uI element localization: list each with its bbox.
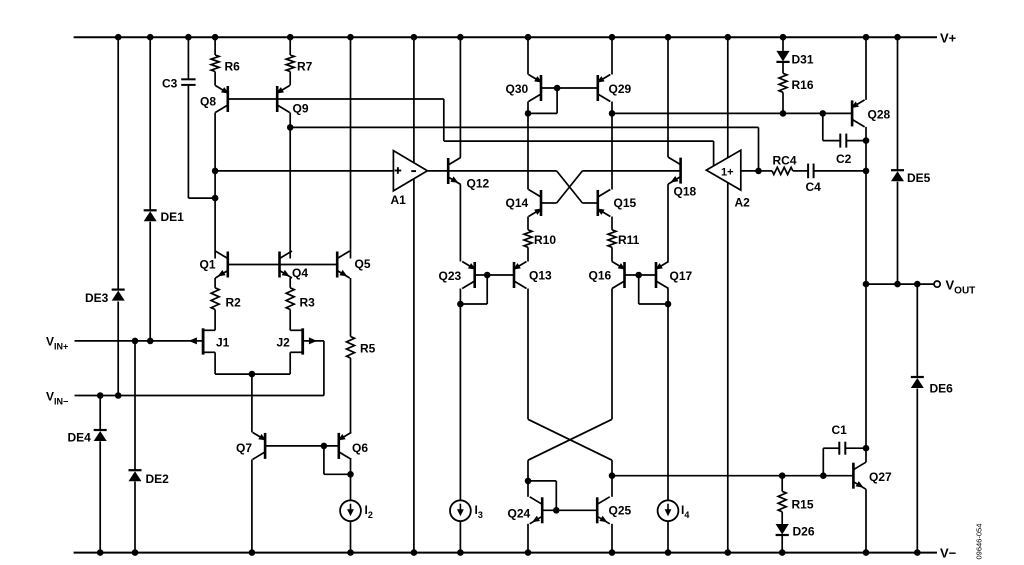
wire: Q15 emitter to R11 (611, 217, 613, 230)
wire: Q24 emitter to V- (527, 524, 529, 553)
svg-text:Q24: Q24 (508, 507, 531, 521)
wire: R7 to Q9 emitter (289, 72, 291, 86)
wire: Q16/Q17 base bus (625, 274, 657, 276)
wire: V+ to Q30 emitter (527, 37, 529, 74)
wire: Q9 collector down to Q4 collector (289, 113, 291, 259)
wire: D26 to V- (781, 536, 783, 553)
transistor Q14 (529, 190, 543, 217)
svg-text:Q29: Q29 (609, 82, 632, 96)
svg-text:Q23: Q23 (439, 269, 462, 283)
capacitor C4 (808, 164, 814, 179)
svg-text:Q14: Q14 (506, 196, 529, 210)
wire: Q16 collector down to crossover (611, 289, 613, 420)
junction: Q7 collector on V- (249, 549, 256, 556)
wire: J1 source to tail node (215, 352, 252, 374)
transistor Q24 (530, 497, 543, 524)
transistor Q15 (597, 190, 611, 217)
wire: Q29 collector to Q28 base (612, 112, 852, 114)
svg-text:D31: D31 (792, 53, 814, 67)
wire: Q13 collector down to crossover (527, 289, 529, 420)
transistor Q8 (215, 86, 229, 113)
junction: R15 tap (779, 472, 786, 479)
wire: Q24 base-collector tie (528, 481, 556, 510)
wire: A2 supply line V+ to V- (727, 37, 729, 552)
junction: DE6 at VOUT (914, 281, 921, 288)
junction: Q24 base tie (553, 507, 560, 514)
junction: A2 supply at V+ (725, 34, 732, 41)
diode DE3 (112, 290, 125, 301)
svg-text:Q7: Q7 (236, 441, 252, 455)
svg-text:Q18: Q18 (674, 185, 697, 199)
transistor Q23 (462, 262, 476, 289)
svg-text:Q30: Q30 (506, 82, 529, 96)
capacitor C3 (181, 79, 195, 85)
junction: I2 on V- (347, 549, 354, 556)
svg-text:R16: R16 (792, 78, 814, 92)
resistor R5 (347, 337, 355, 359)
junction: Q25 emitter on V- (609, 549, 616, 556)
wire: V+ down to Q18 collector (667, 37, 669, 157)
transistor Q9 (276, 86, 290, 113)
wire: Q23 base-collector tie (460, 275, 487, 304)
junction: VIN- / DE3 (115, 392, 122, 399)
junction: Q28 collector / C2 (863, 137, 870, 144)
svg-text:Q28: Q28 (868, 108, 891, 122)
wire: Q25 collector to Q27 base (612, 475, 853, 477)
resistor R10 (524, 230, 532, 248)
junction: Q23 collector tie node (457, 301, 464, 308)
junction: VIN+ / DE1 (147, 338, 154, 345)
wire: Q5 emitter to R5 (350, 278, 352, 337)
transistor Q7 (253, 432, 267, 459)
transistor Q18 (668, 157, 681, 184)
transistor Q5 (337, 251, 350, 278)
svg-text:R15: R15 (792, 498, 814, 512)
junction: A2 output node (755, 168, 762, 175)
svg-text:R10: R10 (534, 233, 556, 247)
junction: compensation tap on output column (863, 168, 870, 175)
wire: VOUT to DE6 (916, 284, 918, 377)
svg-text:R3: R3 (300, 296, 316, 310)
wire: VOUT down to Q27 collector (865, 284, 867, 462)
wire: V+ to DE5 (897, 37, 899, 170)
wire: Q23 collector to I3 (459, 289, 461, 501)
wire: Q4 emitter to R3 (289, 278, 291, 288)
diode DE5 (891, 170, 904, 181)
wire: R15 to D26 (781, 512, 783, 524)
wire: VIN- input to J2 gate (75, 341, 324, 396)
svg-text:Q9: Q9 (293, 102, 309, 116)
transistor Q29 (597, 75, 611, 102)
resistor R11 (608, 230, 616, 248)
transistor Q4 (280, 251, 293, 278)
svg-text:DE4: DE4 (68, 431, 92, 445)
wire: Q1 emitter to R2 (214, 278, 216, 288)
wire: V+ rail down to Q5 collector (350, 37, 352, 258)
svg-text:Q15: Q15 (614, 196, 637, 210)
wire: Q8/Q9 base bus to A2 upper input (228, 99, 714, 167)
jfet J1 (189, 328, 215, 354)
wire: A1 supply line V+ to V- (413, 37, 415, 552)
transistor Q13 (513, 262, 527, 289)
junction: VIN+ / DE2 (132, 338, 139, 345)
capacitor C1 (839, 442, 845, 455)
svg-text:R6: R6 (225, 60, 241, 74)
wire: DE5 to VOUT (897, 182, 899, 284)
wire: crossover Q16 collector to Q24 collector (528, 419, 612, 481)
junction: Q27 emitter on V- (863, 549, 870, 556)
transistor Q17 (655, 262, 669, 289)
transistor Q16 (612, 262, 626, 289)
transistor Q6 (338, 432, 352, 459)
terminal: VOUT pin (934, 281, 940, 287)
svg-text:A1: A1 (391, 193, 407, 207)
svg-text:RC4: RC4 (773, 154, 797, 168)
wire: R5 to Q6 emitter (350, 358, 352, 432)
junction: output column at VOUT (863, 281, 870, 288)
wire: Q7 collector to V- (251, 459, 253, 552)
wire: crossover Q13 collector to Q25 collector (528, 419, 612, 475)
wire: I2 to V- (350, 521, 352, 553)
diode D31 (776, 51, 789, 62)
diode D26 (776, 524, 789, 535)
svg-text:Q25: Q25 (609, 504, 632, 518)
wire: V+ to D31 (782, 37, 784, 51)
junction: V- rail taps (97, 549, 138, 556)
wire: Q1/Q4/Q5 base bus (228, 264, 337, 266)
junction: Q30 collector node (525, 110, 532, 117)
junction: V+ rail taps (115, 34, 869, 41)
transistor Q25 (597, 497, 610, 524)
op-amp A1 (393, 151, 427, 191)
junction: Q16 base tie (635, 272, 642, 279)
svg-text:V+: V+ (940, 31, 957, 46)
svg-text:V−: V− (940, 546, 957, 561)
svg-text:DE3: DE3 (85, 291, 109, 305)
wire: R6 to Q8 emitter (214, 72, 216, 86)
wire: Q17 base-collector tie (639, 275, 668, 304)
wire: DE2 branch VIN+ to V- (134, 341, 136, 553)
junction: Q8 collector / C3 (212, 195, 219, 202)
wire: Q23/Q13 base bus (475, 274, 514, 276)
svg-text:09646-054: 09646-054 (975, 524, 984, 560)
wire: R2 to J1 drain (214, 310, 216, 331)
diode DE1 (144, 210, 157, 221)
wire: DE1 branch V+ to VIN+ (149, 37, 151, 341)
resistor RC4 (759, 167, 793, 174)
wire: Q14 emitter to R10 (527, 217, 529, 230)
junction: Q24 collector node (525, 478, 532, 485)
resistor R16 (779, 73, 787, 92)
junction: R16 on Q28 base wire (780, 110, 787, 117)
svg-text:Q5: Q5 (355, 257, 371, 271)
wire: VOUT node (866, 283, 934, 285)
wire: V- bottom supply rail (74, 552, 937, 554)
svg-text:J2: J2 (277, 336, 291, 350)
op-amp A2 (706, 150, 741, 190)
wire: C2 to Q28 collector (846, 140, 866, 142)
wire: V+ top supply rail (74, 36, 937, 38)
wire: Q25 collector stub (611, 476, 613, 497)
wire: DE4 branch VIN- to V- (99, 396, 101, 553)
svg-text:R2: R2 (226, 296, 242, 310)
wire: Q30 base-collector tie (528, 88, 557, 113)
wire: Q30/Q29 base bus (541, 87, 598, 89)
svg-text:D26: D26 (793, 525, 815, 539)
svg-text:Q17: Q17 (670, 269, 693, 283)
junction: DE6 on V- (914, 549, 921, 556)
junction: Q24 emitter on V- (525, 549, 532, 556)
wire: Q8 collector down to Q1 collector (214, 113, 216, 259)
svg-text:A2: A2 (735, 196, 751, 210)
junction: Q8 collector / A1 input tap (212, 168, 219, 175)
wire: Q18 emitter down to Q17 emitter (667, 184, 669, 261)
junction: C1 tap (820, 472, 827, 479)
wire: Q8 collector tap to A1 input (215, 170, 393, 172)
junction: Q23 base tie (484, 272, 491, 279)
wire: I3 to V- (459, 521, 461, 553)
resistor R7 (286, 55, 294, 72)
junction: C1 on Q27 collector (863, 445, 870, 452)
wire: Q29 collector down to Q15 collector (611, 102, 613, 190)
svg-text:Q1: Q1 (200, 258, 216, 272)
junction: DE5 at VOUT (894, 281, 901, 288)
wire: Q9 collector to A2 input node (290, 127, 758, 170)
wire: RC4 to C4 (793, 170, 808, 172)
resistor R15 (778, 476, 786, 512)
svg-text:Q4: Q4 (292, 266, 308, 280)
junction: Q30 base tie (554, 85, 561, 92)
svg-text:C3: C3 (162, 77, 178, 91)
junction: Q9 collector node (287, 124, 294, 131)
current source I3 (450, 500, 471, 521)
svg-text:Q6: Q6 (352, 441, 368, 455)
wire: D31 to R16 (782, 63, 784, 73)
wire: I4 to V- (667, 521, 669, 553)
junction: Q25 collector node (609, 472, 616, 479)
current source I2 (340, 500, 361, 521)
junction: I4 on V- (665, 549, 672, 556)
svg-text:DE5: DE5 (907, 171, 931, 185)
wire: Q6 base-collector tie (324, 446, 351, 474)
wire: A1 output to Q12 base (427, 170, 448, 172)
wire: R16 to Q28 base wire (782, 92, 784, 113)
wire: Q12 emitter down to Q23 emitter (459, 185, 461, 262)
svg-text:Q13: Q13 (529, 269, 552, 283)
wire: Q28 emitter to V+ (865, 37, 867, 100)
transistor Q27 (853, 462, 866, 489)
wire: C1 branch from Q27 base wire (823, 448, 839, 476)
resistor R2 (211, 288, 219, 310)
junction: Q6 collector tie node (347, 471, 354, 478)
wire: V+ to R6 (214, 37, 216, 55)
svg-text:C4: C4 (806, 180, 822, 194)
transistor Q28 (851, 100, 865, 127)
wire: DE3 branch V+ to VIN- (117, 37, 119, 395)
wire: Q17 collector to I4 (667, 289, 669, 501)
diode DE6 (911, 377, 924, 388)
wire: Q14 base to Q18 base (cross) (541, 171, 681, 203)
diode DE2 (129, 470, 142, 481)
junction: Q17 collector tie node (665, 301, 672, 308)
junction: D26 on V- (779, 549, 786, 556)
wire: Q24/Q25 base bus (542, 509, 597, 511)
wire: Q6 collector to I2 (350, 459, 352, 500)
junction: A2 supply at V- (725, 549, 732, 556)
transistor Q1 (215, 251, 228, 278)
svg-text:DE2: DE2 (146, 472, 170, 486)
junction: A1 supply at V+ (411, 34, 418, 41)
wire: A2 output to RC4 node (741, 170, 759, 172)
junction: D31 at V+ rail (780, 34, 787, 41)
junction: Q7/Q6 base tie (321, 443, 328, 450)
junction: DE5 at V+ rail (894, 34, 901, 41)
wire: Q7/Q6 base bus (265, 445, 339, 447)
wire: V+ to R7 (289, 37, 291, 55)
svg-text:Q8: Q8 (200, 95, 216, 109)
jfet J2 (290, 328, 317, 354)
transistor Q12 (448, 158, 461, 185)
wire: Q12 base bus to Q15 base (cross) (448, 171, 598, 203)
current source I4 (658, 500, 679, 521)
junction: A1 supply at V- (411, 549, 418, 556)
junction: VIN- / DE4 (97, 392, 104, 399)
svg-text:1+: 1+ (721, 167, 734, 179)
resistor R3 (286, 288, 294, 310)
wire: VIN+ input to J1 gate (75, 340, 204, 342)
svg-text:C1: C1 (832, 423, 848, 437)
wire: V+ to Q29 emitter (611, 37, 613, 74)
svg-text:Q16: Q16 (589, 269, 612, 283)
wire: C4 to output column (814, 170, 866, 172)
junction: I3 on V- (457, 549, 464, 556)
svg-text:Q27: Q27 (869, 470, 892, 484)
capacitor C2 (840, 134, 846, 148)
diode DE4 (94, 430, 107, 441)
svg-text:R5: R5 (360, 342, 376, 356)
svg-text:Q12: Q12 (467, 177, 490, 191)
wire: C2 branch from base wire (823, 113, 841, 140)
junction: Q29 collector node (609, 110, 616, 117)
wire: V+ down to Q12 collector (459, 37, 461, 157)
svg-text:DE1: DE1 (161, 210, 185, 224)
resistor R6 (211, 55, 219, 72)
junction: JFET tail node (249, 371, 256, 378)
junction: C2 tap on base wire (820, 110, 827, 117)
wire: DE6 to V- (916, 389, 918, 553)
wire: R11 to Q16 emitter (611, 247, 613, 261)
wire: Q25 emitter to V- (611, 524, 613, 553)
wire: R3 to J2 drain (289, 310, 291, 331)
svg-text:R11: R11 (618, 233, 640, 247)
svg-text:DE6: DE6 (930, 382, 954, 396)
wire: C1 to Q27 collector (845, 447, 866, 449)
wire: Q27 emitter to V- (865, 489, 867, 552)
wire: Q28 collector to output column (865, 127, 867, 284)
wire: J2 source to tail node (252, 352, 290, 374)
wire: C3 branch from V+ to Q8 collector line (188, 37, 215, 198)
transistor Q30 (529, 75, 543, 102)
wire: Q30 collector down to Q14 collector (527, 102, 529, 190)
svg-text:R7: R7 (297, 60, 313, 74)
wire: Q24 collector stub (527, 481, 529, 497)
svg-text:C2: C2 (836, 152, 852, 166)
wire: R10 to Q13 emitter (527, 247, 529, 261)
wire: tail node down to Q7 emitter (251, 374, 253, 432)
svg-text:J1: J1 (216, 336, 230, 350)
